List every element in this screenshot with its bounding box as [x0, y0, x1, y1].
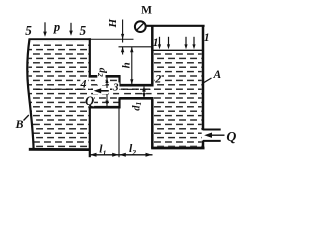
tank B liquid hatch [29, 42, 89, 149]
pipe axis line [36, 88, 152, 90]
svg-text:B: B [14, 117, 23, 131]
svg-text:3: 3 [112, 81, 119, 93]
pressure arrows in tank A [160, 37, 195, 46]
tank B bottom [29, 148, 91, 151]
svg-text:M: M [141, 5, 152, 17]
small pipe bore hatch [121, 86, 152, 98]
tank B surface line 5-5 [29, 38, 92, 40]
svg-text:1: 1 [153, 37, 159, 49]
tank A surface line 1-1 [153, 49, 202, 51]
pressure arrow on 5-5 right [70, 23, 72, 32]
svg-text:5: 5 [80, 23, 87, 38]
outlet stub top [203, 129, 221, 131]
dimension d1 [143, 87, 145, 98]
contraction step top [118, 75, 120, 86]
svg-text:H: H [107, 18, 119, 28]
svg-text:Q: Q [85, 94, 94, 108]
node label 2 [155, 74, 162, 83]
tank B left wall [27, 39, 33, 149]
svg-text:p: p [53, 20, 60, 34]
arrowhead right l2 [146, 153, 153, 157]
svg-text:4: 4 [80, 77, 87, 90]
level 1-1 extension line [119, 46, 153, 48]
node label 3 [112, 82, 119, 91]
bottom dimension line [90, 154, 153, 156]
small pipe bottom wall [120, 97, 154, 100]
tank A left wall upper [151, 25, 154, 86]
svg-text:1: 1 [204, 32, 210, 44]
dimension d2 [106, 78, 108, 106]
extension line at contraction [118, 108, 120, 157]
leader line A [203, 78, 212, 83]
node label 4 [80, 79, 87, 88]
arrowhead left l1 [90, 153, 97, 157]
tank A liquid hatch [153, 52, 201, 147]
gauge needle [136, 23, 144, 31]
dimension h line [131, 47, 133, 85]
level 5-5 extension line [91, 38, 134, 40]
big pipe bore hatch [91, 78, 119, 106]
dimension H lower arrow [122, 47, 124, 55]
svg-text:2: 2 [154, 72, 161, 86]
dimension H upper arrow [122, 20, 124, 43]
tank B right wall lower (extends to dimension line) [89, 107, 91, 157]
small pipe top wall [120, 84, 154, 87]
gauge M circle [135, 21, 146, 32]
inflow arrow Q [208, 134, 225, 136]
tank A left wall lower [151, 97, 154, 148]
tank A right wall below outlet [202, 141, 205, 150]
flow arrow Q in pipe [93, 88, 109, 94]
svg-text:h: h [121, 62, 133, 68]
arrowheads middle [112, 153, 119, 157]
tank B right wall upper [89, 38, 91, 77]
leader line B [24, 115, 29, 121]
label Q (pipe) [86, 96, 95, 106]
pressure arrow on 5-5 left [44, 22, 46, 32]
big pipe bottom wall [89, 106, 121, 109]
tank A right wall [202, 25, 205, 130]
svg-text:Q: Q [226, 129, 236, 144]
big pipe top wall [89, 75, 121, 78]
contraction step bottom [118, 97, 120, 108]
outlet stub bottom [203, 140, 221, 142]
tank A bottom [151, 147, 204, 150]
tank A top line [145, 25, 204, 27]
svg-text:A: A [212, 69, 221, 81]
svg-text:5: 5 [25, 23, 32, 38]
